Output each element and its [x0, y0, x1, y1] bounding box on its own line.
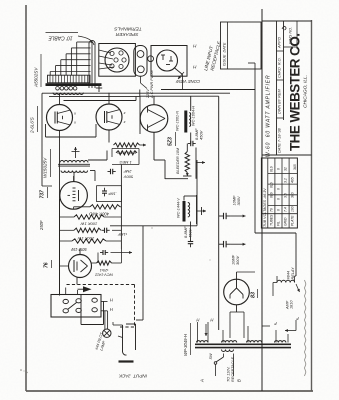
line receptacle circle: [157, 50, 178, 71]
ladder row3 capacitor: [102, 229, 105, 231]
ladder row4 wires: [60, 240, 73, 242]
pwr primary winding: [222, 350, 234, 352]
interstage secondary winding: [61, 171, 88, 173]
title block bottom edge: [262, 154, 312, 156]
voltage table row line 2: [268, 183, 298, 185]
tube V3 5Z3 rectifier: [140, 105, 168, 133]
interstage primary winding: [60, 161, 88, 163]
bus wire lower: [64, 100, 137, 102]
grid resistor R2: [116, 151, 137, 155]
output transformer tap wire 3: [60, 60, 62, 76]
title block row line 2: [277, 79, 284, 81]
capacitor 8-8MF second: [190, 238, 192, 242]
switch wire right upper: [101, 301, 108, 303]
switch wire right lower: [101, 310, 108, 312]
primary lead B: [233, 354, 235, 377]
cable bundle wires: [88, 43, 90, 88]
wire V1 V2 link: [45, 124, 47, 137]
output transformer tap wire 2: [55, 66, 57, 76]
speaker plug pin: [148, 56, 154, 62]
line receptacle stem: [174, 68, 183, 75]
tube V1 6L6: [47, 105, 73, 131]
capacitor 10MF lower: [219, 243, 224, 245]
power transformer core: [195, 343, 291, 345]
line receptacle contact 2: [170, 56, 172, 61]
scan speckles: [20, 227, 210, 373]
voltage table row line 5: [261, 213, 297, 215]
bus wire top: [161, 89, 255, 91]
tube V4 737: [60, 182, 88, 210]
voltage table row line 1: [268, 172, 298, 174]
speaker socket lead 2: [99, 56, 113, 59]
line receptacle contact 1: [162, 55, 164, 60]
cap lower arrow: [231, 243, 246, 245]
wire left bus to transformer: [41, 150, 43, 186]
wire V1 anode drop: [59, 131, 61, 296]
wire cap junction: [190, 226, 192, 238]
wire down from filter: [196, 160, 198, 226]
bus drop right pair: [135, 96, 137, 100]
rectifier box top: [140, 95, 219, 97]
choke bottom lead: [190, 222, 192, 226]
ladder row2 resistor: [74, 215, 104, 219]
line receptacle contact 3: [166, 64, 170, 66]
76 top capacitor: [100, 252, 103, 254]
title block top edge: [262, 20, 312, 22]
chassis arrow: [83, 286, 92, 292]
ladder row4 resistor: [72, 239, 106, 243]
wire choke junction: [165, 178, 188, 180]
83 wires: [236, 305, 238, 312]
title block divider col 2: [283, 21, 285, 120]
bleeder arrow: [186, 173, 188, 177]
speaker socket pins: [110, 51, 114, 55]
speaker plug body: [134, 46, 147, 77]
choke top bracket: [183, 196, 185, 201]
76 grid wire: [60, 265, 69, 267]
speaker plug prong 2: [137, 66, 144, 73]
76 plate wires: [92, 262, 97, 264]
switch blade 1: [68, 303, 77, 310]
bleeder tap arrow: [195, 148, 197, 179]
grid resistor box: [112, 148, 139, 150]
line receptacle box: [151, 46, 187, 77]
output transformer ground stub: [98, 84, 100, 92]
vertical rail mid: [142, 226, 144, 320]
voltage table row line 3: [268, 194, 298, 196]
approval checkmark: [282, 26, 286, 30]
capacitor 10MF upper: [219, 215, 224, 217]
pwr winding 2: [222, 341, 237, 343]
pwr leads group4: [275, 330, 277, 343]
switch box: [51, 295, 101, 318]
pwr winding 4: [275, 341, 286, 343]
voltage table column line 4: [288, 158, 290, 228]
76 cathode drop: [76, 278, 78, 285]
speaker socket box: [99, 44, 136, 77]
tube V2 6L6: [96, 104, 122, 130]
pwr leads group2: [222, 330, 224, 343]
speaker socket circle: [105, 48, 129, 72]
primary switch SW: [223, 354, 225, 358]
speaker plug prong 1: [137, 51, 144, 58]
wire 5Z3 cathode: [153, 132, 155, 160]
bleeder resistor: [185, 152, 189, 173]
output transformer winding band: [48, 75, 91, 83]
tube V5 76: [69, 255, 92, 278]
choke WC-1444 vertical: [183, 201, 186, 222]
output transformer tap wire 5: [70, 48, 72, 76]
wire right bus descent: [254, 90, 256, 234]
ladder rail left: [59, 199, 61, 296]
capacitor 8-8MF first: [190, 133, 192, 144]
wire relay drop: [273, 282, 277, 284]
chassis dashed horizontal: [67, 284, 136, 286]
bus wire upper: [42, 92, 230, 94]
bus drop left: [41, 93, 43, 150]
wire receptacle supply: [248, 62, 255, 64]
relay arrow: [296, 284, 300, 292]
scan crease marks: [305, 280, 306, 376]
pwr winding 1: [197, 341, 208, 343]
output transformer tap wire 6: [76, 42, 78, 76]
ladder row3 wires: [60, 229, 75, 231]
pwr ct arrow: [205, 324, 207, 336]
wire bus to relay: [255, 232, 296, 234]
switch box extension: [80, 295, 82, 325]
speaker socket lead 3: [99, 63, 112, 65]
output transformer tap wire 1: [49, 72, 51, 76]
switch wires top: [65, 288, 67, 295]
pwr leads group3: [247, 326, 249, 343]
ladder top wires: [73, 207, 75, 209]
schematic inner right border: [261, 9, 263, 391]
voltage table column line 3: [281, 158, 283, 228]
cap upper arrow: [231, 215, 246, 217]
pilot lamp: [103, 329, 111, 337]
issue date box divider: [227, 22, 229, 69]
pwr leads group1: [197, 322, 199, 343]
input jack contacts: [122, 325, 124, 352]
choke tap arrow: [201, 207, 203, 215]
bus wire mid: [49, 96, 140, 98]
ladder row2 wires: [60, 216, 75, 218]
output transformer tap wire 4: [65, 54, 67, 76]
title block row line 3: [277, 117, 284, 119]
scan frame outer right border: [311, 20, 313, 391]
issue date box: [221, 22, 262, 69]
scan frame left border: [25, 5, 27, 391]
cable pointer arc: [78, 36, 94, 45]
relay coil: [277, 280, 295, 282]
voltage table outer box: [261, 158, 297, 228]
voltage table column line 1: [267, 158, 269, 228]
voltage table row line 4: [268, 204, 298, 206]
switch contacts: [63, 299, 68, 303]
title block divider col: [276, 21, 278, 155]
title block row line 1: [277, 50, 284, 52]
76 plate resistor: [97, 261, 112, 265]
ladder row3 resistor: [74, 228, 101, 232]
jack wire: [113, 324, 123, 326]
interstage core: [58, 163, 90, 165]
interstage shield arrow: [75, 147, 77, 158]
voltage table column line 2: [274, 158, 276, 228]
pwr winding 3: [247, 341, 262, 343]
filter choke L1: [184, 111, 187, 133]
737 cathode resistor: [90, 205, 120, 209]
ladder rail right: [120, 165, 122, 250]
chassis dashed bottom: [120, 326, 135, 328]
junction bus mid: [110, 225, 197, 227]
output transformer terminals: [56, 87, 60, 91]
speaker socket lead 1: [99, 50, 111, 53]
output transformer core bar: [46, 83, 102, 86]
output transformer lower winding: [53, 93, 83, 95]
chassis dashed vertical: [134, 285, 136, 328]
title block dwg-no divider: [284, 46, 298, 48]
737 grid capacitor: [104, 188, 106, 191]
scan frame bottom border: [26, 390, 313, 392]
coupling capacitor C2: [108, 171, 111, 173]
wire F arrow: [285, 330, 291, 332]
tube V6 83: [224, 279, 250, 305]
plug connecting wire: [140, 76, 142, 83]
scan noise texture: [0, 0, 1, 1]
737 grid cap box: [97, 186, 122, 202]
speaker socket lead 4: [99, 67, 114, 69]
V2 cathode resistor R1: [114, 143, 140, 147]
wire V2 anode drop: [108, 130, 110, 143]
interstage wires: [88, 159, 107, 161]
vertical rail b-plus: [218, 96, 220, 330]
